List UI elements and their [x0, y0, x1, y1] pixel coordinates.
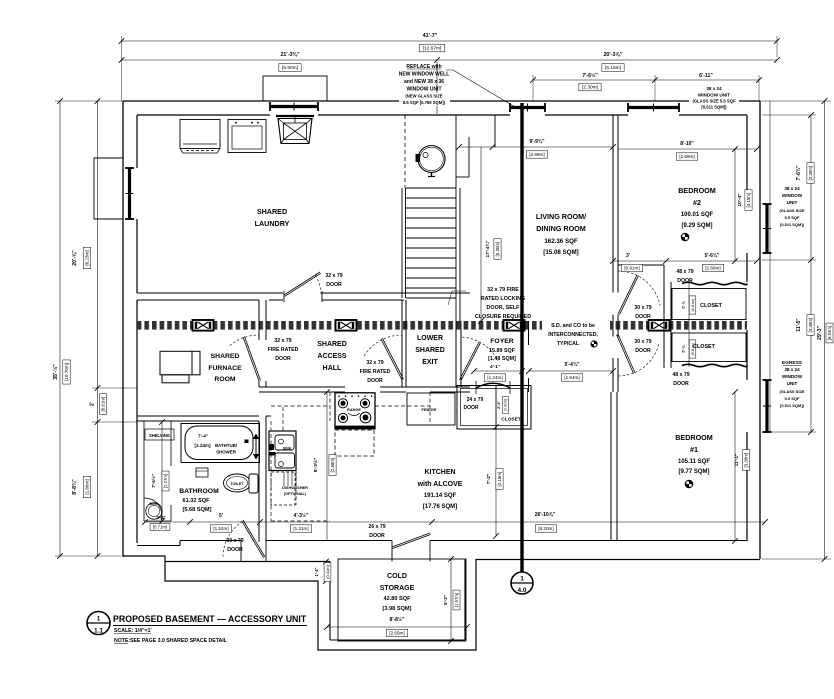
svg-text:1: 1: [97, 616, 101, 623]
svg-text:29'-3": 29'-3": [817, 325, 823, 340]
svg-text:8.5 SQF [0.789 SQM]): 8.5 SQF [0.789 SQM]): [403, 100, 446, 105]
svg-text:[5.30m]: [5.30m]: [495, 242, 500, 257]
svg-text:4.0: 4.0: [517, 587, 526, 594]
fire rated door FD4 in band: [649, 320, 670, 331]
furnace room east wall / hall west wall: [258, 300, 260, 340]
svg-text:[1.52m]: [1.52m]: [213, 526, 228, 531]
svg-text:5.5 SQF: 5.5 SQF: [785, 396, 800, 401]
lower shared exit / foyer west wall: [455, 330, 457, 387]
door D7 bathroom 30x79: [242, 520, 265, 558]
foyer east wall stubs: [528, 330, 530, 345]
svg-text:1.1: 1.1: [94, 628, 103, 635]
smoke detector symbol near note: [590, 340, 597, 347]
svg-text:[1.31m]: [1.31m]: [293, 526, 308, 531]
door D2 hall west 32x79 fire rated: [243, 336, 261, 381]
dim 41'-7" overall top: [122, 40, 778, 42]
water heater: [418, 146, 445, 173]
door D5 foyer to bedroom1 30x79: [617, 334, 635, 374]
tub drain arrows: [255, 436, 257, 457]
svg-text:UNIT: UNIT: [787, 200, 798, 205]
svg-text:[2.18m]: [2.18m]: [497, 472, 502, 487]
laundry dashed partition: [404, 115, 406, 188]
laundry south wall: [137, 292, 283, 294]
kitchen east / bedroom1 west wall: [610, 392, 612, 541]
svg-text:DOOR: DOOR: [677, 278, 693, 284]
svg-text:30 x 79: 30 x 79: [634, 305, 651, 311]
svg-text:[0.71m]: [0.71m]: [153, 525, 167, 530]
toilet paper holder: [196, 468, 208, 477]
svg-text:7'-2": 7'-2": [486, 474, 492, 484]
svg-text:[0.81m]: [0.81m]: [691, 299, 695, 312]
svg-text:FOYER: FOYER: [490, 338, 514, 345]
svg-text:8'-8¾": 8'-8¾": [71, 479, 78, 495]
dim 2' left furnace: [97, 388, 99, 422]
svg-text:NOTE:: NOTE:: [114, 638, 130, 644]
svg-text:[1.57m]: [1.57m]: [454, 593, 459, 607]
living room west wall stub: [494, 115, 496, 147]
closet2 south wavy existing wall: [682, 364, 747, 366]
svg-text:SHOWER: SHOWER: [216, 450, 237, 455]
interior walls crossing band: [258, 321, 260, 330]
toilet: [224, 474, 251, 492]
svg-text:EXIT: EXIT: [422, 359, 438, 366]
svg-text:[2.65m]: [2.65m]: [389, 631, 404, 636]
dim 5'-4 3/4 alcove width: [529, 370, 613, 372]
dishwasher optional dashed: [271, 472, 295, 505]
dim 11'-5 right egress: [810, 260, 812, 432]
svg-text:8'-3½": 8'-3½": [312, 458, 319, 472]
svg-text:8'-8½": 8'-8½": [390, 616, 406, 623]
svg-text:21'-3⅜": 21'-3⅜": [280, 52, 300, 58]
svg-text:[9.77 SQM]: [9.77 SQM]: [678, 469, 709, 475]
dim 10'-4 bedroom2 height: [734, 149, 736, 261]
svg-text:BEDROOM: BEDROOM: [678, 186, 716, 195]
svg-text:[6.18m]: [6.18m]: [605, 65, 621, 71]
bathroom sink: [144, 498, 162, 520]
hall east wall / stair wall: [401, 300, 403, 321]
svg-text:(GLASS SIZE 5.5 SQF: (GLASS SIZE 5.5 SQF: [692, 99, 735, 104]
window W1 top 38x36 replacement: [269, 102, 271, 111]
section cut line 1/4.0: [520, 103, 523, 572]
svg-text:INTERCONNECTED,: INTERCONNECTED,: [548, 332, 598, 338]
svg-text:26 x 79: 26 x 79: [368, 524, 385, 530]
svg-text:48 x 79: 48 x 79: [672, 372, 689, 378]
svg-text:5'-4¾": 5'-4¾": [565, 361, 581, 368]
svg-text:SINK: SINK: [149, 502, 158, 506]
svg-text:32 x 79: 32 x 79: [366, 360, 383, 366]
dim 35'-1/2 overall left: [59, 101, 61, 556]
svg-text:41'-7": 41'-7": [423, 33, 438, 39]
svg-text:[0.511 SQM]): [0.511 SQM]): [701, 105, 727, 110]
svg-text:KITCHEN: KITCHEN: [424, 469, 455, 476]
svg-text:SHARED: SHARED: [317, 341, 347, 348]
section marker circle 1/4.0: [511, 572, 533, 594]
closet depth dim line: [688, 283, 690, 367]
fire rated door FD3 in band: [504, 320, 525, 331]
svg-text:7'-6¾": 7'-6¾": [795, 165, 802, 181]
dim 5'-6 3/4 bedroom2 south: [666, 260, 757, 262]
dim 8'-10 bedroom2 width: [618, 148, 757, 150]
svg-text:FIRE RATED: FIRE RATED: [360, 369, 391, 375]
svg-text:11'-1": 11'-1": [734, 454, 740, 467]
svg-text:LAUNDRY: LAUNDRY: [255, 219, 290, 228]
svg-text:DOOR: DOOR: [326, 282, 342, 288]
dim 4'-1 foyer width: [474, 370, 522, 372]
svg-text:[8.20m]: [8.20m]: [538, 526, 553, 531]
svg-text:5': 5': [219, 513, 223, 519]
svg-text:7'-4": 7'-4": [198, 434, 208, 440]
svg-text:162.36 SQF: 162.36 SQF: [544, 238, 578, 245]
window well at top (laundry): [263, 76, 327, 101]
svg-text:SCALE: 1/4"=1': SCALE: 1/4"=1': [114, 628, 152, 634]
svg-text:DOOR: DOOR: [673, 381, 689, 387]
door D8 kitchen/cold storage 26x79: [392, 533, 431, 549]
svg-text:2'-4": 2'-4": [497, 401, 501, 409]
svg-text:38 x 24: 38 x 24: [784, 186, 800, 191]
svg-text:CLOSURE REQUIRED: CLOSURE REQUIRED: [475, 314, 531, 320]
dryer: [228, 120, 266, 153]
dim 3' bedroom2 south: [613, 260, 666, 262]
svg-text:9'-9¾": 9'-9¾": [530, 138, 546, 145]
svg-text:[3.38m]: [3.38m]: [744, 453, 749, 468]
svg-text:FURNACE: FURNACE: [208, 365, 242, 372]
exterior wall outline: [123, 100, 760, 102]
svg-text:[2.88m]: [2.88m]: [330, 458, 335, 473]
svg-text:(NEW GLASS SIZE: (NEW GLASS SIZE: [405, 94, 442, 99]
svg-text:38 x 24: 38 x 24: [706, 86, 722, 91]
svg-text:42.80 SQF: 42.80 SQF: [383, 596, 411, 602]
svg-text:48 x 79: 48 x 79: [676, 269, 693, 275]
svg-text:[3.48m]: [3.48m]: [808, 318, 813, 333]
svg-text:2': 2': [90, 402, 96, 406]
svg-text:30 x 79: 30 x 79: [634, 339, 651, 345]
dim 9'-9 3/4 living width: [459, 146, 613, 148]
window W4 left laundry: [125, 167, 134, 169]
svg-text:20'-⅝": 20'-⅝": [72, 250, 78, 266]
svg-text:8'-10": 8'-10": [680, 141, 694, 147]
svg-text:[3.15m]: [3.15m]: [746, 193, 751, 208]
dim 20'-3 5/8 top right: [437, 59, 777, 61]
svg-text:[1.24m]: [1.24m]: [487, 375, 502, 380]
right side window well extension line: [769, 101, 771, 432]
closet1 north wavy existing wall: [682, 282, 747, 284]
svg-text:11'-5": 11'-5": [796, 318, 802, 332]
svg-text:3': 3': [626, 253, 630, 259]
svg-text:CLOSET: CLOSET: [501, 417, 521, 423]
svg-text:2'-4": 2'-4": [156, 515, 165, 520]
svg-text:LIVING ROOM/: LIVING ROOM/: [536, 212, 586, 221]
window W5 right bedroom2 38x24: [763, 203, 772, 205]
laundry door jambs: [283, 291, 285, 302]
svg-text:7'-6½": 7'-6½": [582, 72, 598, 79]
laundry tub: [276, 115, 314, 117]
door D6 bedroom2 30x79: [618, 275, 638, 315]
svg-text:5'-2": 5'-2": [443, 595, 448, 605]
svg-text:[1.68m]: [1.68m]: [705, 266, 720, 271]
hall/kitchen north wall: [259, 386, 345, 388]
svg-text:30 x 79: 30 x 79: [226, 538, 243, 544]
svg-text:1'-4": 1'-4": [314, 567, 319, 576]
svg-text:TYPICAL: TYPICAL: [557, 341, 580, 347]
dim 26'-10 7/8 bottom interior: [432, 521, 765, 523]
dim 7'-2 kitchen height: [495, 427, 497, 536]
svg-text:RANGE: RANGE: [347, 408, 361, 412]
dim 29'-3 overall right: [824, 101, 826, 559]
svg-text:#1: #1: [690, 445, 698, 454]
svg-text:[5.68 SQM]: [5.68 SQM]: [183, 507, 212, 513]
svg-text:DINING ROOM: DINING ROOM: [536, 224, 586, 233]
svg-text:and NEW 38 x 36: and NEW 38 x 36: [404, 79, 444, 85]
svg-text:CLOSET: CLOSET: [700, 303, 723, 309]
dim 1'-4 step: [325, 562, 327, 582]
window W2 top living room: [509, 103, 511, 112]
svg-text:WINDOW: WINDOW: [782, 193, 803, 198]
svg-text:PROPOSED BASEMENT — ACCESSO: PROPOSED BASEMENT — ACCESSORY UNIT: [113, 614, 307, 624]
svg-text:20'-3⅝": 20'-3⅝": [603, 52, 623, 58]
fridge: [407, 393, 455, 425]
dim 8'-3 kitchen west height: [326, 392, 328, 541]
svg-text:[0.511 SQM]): [0.511 SQM]): [780, 403, 805, 408]
svg-text:[9.29 SQM]: [9.29 SQM]: [681, 223, 712, 229]
dim 5' bathroom width: [145, 521, 432, 523]
svg-text:COLD: COLD: [387, 573, 407, 580]
svg-text:FIRE RATED: FIRE RATED: [268, 347, 299, 353]
svg-text:[0.91m]: [0.91m]: [624, 266, 639, 271]
svg-text:STORAGE: STORAGE: [380, 585, 415, 592]
svg-text:[6.50m]: [6.50m]: [282, 65, 298, 71]
bathroom north wall: [137, 415, 259, 417]
svg-text:(OPTIONAL): (OPTIONAL): [284, 492, 307, 496]
svg-text:DOOR: DOOR: [369, 533, 385, 539]
svg-text:[2.30m]: [2.30m]: [582, 85, 598, 91]
fire rated door FD2 in band: [336, 320, 357, 331]
bathroom east wall: [258, 421, 260, 542]
dim 7'-6 3/4 right window b2: [810, 115, 812, 260]
dim 5'-2 cold storage height: [450, 559, 452, 641]
window W6 right egress bedroom1: [763, 379, 772, 381]
leader replace window: [446, 69, 453, 71]
door D4 exit/foyer 32x79 fire rated locking: [460, 342, 481, 381]
svg-text:[2.24m]: [2.24m]: [194, 443, 211, 448]
kitchen counter dashed outline: [270, 421, 272, 521]
svg-text:DOOR: DOOR: [227, 547, 243, 553]
dim 20'-5/8 left laundry: [97, 101, 99, 388]
svg-text:TOILET: TOILET: [230, 482, 244, 486]
cold storage room inner face: [338, 559, 466, 641]
svg-text:DOOR: DOOR: [367, 378, 383, 384]
svg-text:DOOR: DOOR: [635, 348, 651, 354]
svg-text:NEW WINDOW WELL: NEW WINDOW WELL: [399, 72, 450, 78]
svg-text:EGRESS: EGRESS: [782, 360, 803, 366]
svg-text:HALL: HALL: [323, 365, 342, 372]
title drawing number circle: [87, 612, 110, 635]
closet1 inner box: [672, 289, 746, 320]
svg-text:[3.98 SQM]: [3.98 SQM]: [383, 606, 412, 612]
svg-text:[6.23m]: [6.23m]: [85, 250, 90, 265]
svg-text:4'-1": 4'-1": [490, 364, 500, 369]
svg-text:32 x 79: 32 x 79: [325, 273, 342, 279]
dim 7'-6 1/2 window living: [533, 79, 655, 81]
svg-text:CLOSET: CLOSET: [693, 344, 716, 350]
svg-text:61.32 SQF: 61.32 SQF: [182, 498, 210, 504]
svg-text:[2.30m]: [2.30m]: [808, 166, 813, 181]
svg-text:BATHROOM: BATHROOM: [179, 488, 219, 495]
svg-text:ACCESS: ACCESS: [317, 353, 347, 360]
bedroom2 south wall / closet north: [618, 264, 664, 266]
svg-text:[10.70m]: [10.70m]: [64, 363, 69, 381]
svg-text:1: 1: [520, 576, 524, 583]
range: [335, 393, 375, 429]
note replace window text block: [399, 93, 450, 106]
smoke detector bedroom1: [685, 480, 694, 489]
window well left side: [94, 158, 123, 219]
dim 21'-3 3/8 top left: [122, 59, 438, 61]
svg-text:2'-⅛: 2'-⅛: [682, 344, 686, 352]
svg-text:ROOM: ROOM: [214, 376, 235, 383]
svg-text:15.89 SQF: 15.89 SQF: [489, 348, 516, 354]
svg-text:#2: #2: [693, 198, 701, 207]
svg-text:6'-11": 6'-11": [699, 73, 713, 79]
foyer closet accordion door: [476, 383, 510, 388]
svg-text:32 x 79: 32 x 79: [274, 338, 291, 344]
svg-text:[1.64m]: [1.64m]: [564, 375, 579, 380]
svg-text:[17.76 SQM]: [17.76 SQM]: [423, 504, 457, 510]
svg-text:105.11 SQF: 105.11 SQF: [678, 459, 710, 465]
smoke detector bedroom2: [681, 233, 690, 242]
svg-text:WINDOW: WINDOW: [782, 374, 803, 379]
svg-text:[15.08 SQM]: [15.08 SQM]: [543, 249, 578, 256]
svg-text:LOWER: LOWER: [417, 335, 443, 342]
door D9 closet1 48x79 bifold: [599, 436, 601, 438]
dim 6'-11 window bedroom2: [655, 79, 759, 81]
svg-text:35'-½": 35'-½": [52, 364, 59, 380]
dim 11'-1 bedroom1 height: [734, 392, 736, 541]
svg-text:100.01 SQF: 100.01 SQF: [681, 212, 714, 218]
svg-text:SHARED: SHARED: [211, 353, 240, 360]
svg-text:SINK: SINK: [283, 447, 292, 451]
svg-text:SEE PAGE 3.0 SHARED SPACE: SEE PAGE 3.0 SHARED SPACE DETAIL: [130, 638, 228, 644]
svg-text:24 x 79: 24 x 79: [467, 397, 484, 403]
svg-text:[2.68m]: [2.68m]: [85, 479, 90, 494]
svg-text:SHELVING: SHELVING: [149, 433, 170, 438]
svg-text:2'-⅛: 2'-⅛: [682, 300, 686, 308]
svg-text:26'-10⅞": 26'-10⅞": [535, 512, 556, 518]
svg-text:[0.41m]: [0.41m]: [504, 399, 508, 410]
stair flight: [401, 188, 403, 298]
dim 17'-4 3/4 living height: [480, 147, 482, 321]
svg-text:DOOR: DOOR: [275, 356, 291, 362]
svg-text:DOOR, SELF: DOOR, SELF: [487, 305, 521, 311]
svg-text:[0.511 SQM]): [0.511 SQM]): [780, 222, 805, 227]
svg-text:with ALCOVE: with ALCOVE: [417, 481, 463, 488]
door D3 hall east 32x79 fire rated: [381, 338, 403, 380]
svg-text:10'-4": 10'-4": [737, 193, 743, 206]
kitchen sink double: [269, 431, 296, 471]
svg-text:WINDOW UNIT: WINDOW UNIT: [698, 93, 730, 98]
bottom exterior wall and cold storage step outline: [123, 556, 330, 562]
svg-text:191.14 SQF: 191.14 SQF: [424, 493, 457, 499]
svg-text:S.D. and CO to be: S.D. and CO to be: [551, 323, 595, 329]
closet2 inner box: [672, 333, 746, 362]
svg-text:[0.61m]: [0.61m]: [101, 397, 106, 412]
note 38x24 window unit top right: [689, 97, 739, 111]
stair enclosure walls: [455, 115, 457, 321]
furnace unit: [160, 351, 192, 375]
foyer closet: [457, 386, 531, 430]
svg-text:UNIT: UNIT: [787, 381, 798, 386]
dim 7'-5 1/2 bathroom height: [161, 422, 163, 521]
svg-text:(GLASS SIZE: (GLASS SIZE: [779, 208, 804, 213]
svg-text:FRIDGE: FRIDGE: [421, 407, 436, 412]
door D1 laundry 32x79: [284, 272, 321, 296]
svg-text:RATED LOCKING: RATED LOCKING: [481, 296, 526, 302]
svg-text:5'-6¾": 5'-6¾": [705, 252, 721, 259]
bathtub / shower: [185, 426, 253, 460]
dim 8'-8 1/2 cold storage width: [327, 626, 467, 628]
window W3 top bedroom2 38x24: [627, 103, 629, 112]
svg-text:[12.67m]: [12.67m]: [423, 46, 442, 52]
svg-text:WINDOW UNIT: WINDOW UNIT: [407, 87, 442, 93]
svg-text:[2.27m]: [2.27m]: [163, 474, 168, 488]
foyer east boundary / alcove wall: [612, 330, 614, 337]
svg-text:32 x 79 FIRE: 32 x 79 FIRE: [487, 287, 519, 293]
dim 8'-8 3/4 left bathroom: [97, 422, 99, 556]
svg-text:BATHTUB/: BATHTUB/: [215, 443, 238, 448]
svg-text:17'-4¾": 17'-4¾": [484, 240, 491, 257]
svg-text:38 x 24: 38 x 24: [784, 367, 800, 372]
bathroom south dim wall line: [144, 520, 171, 522]
svg-text:DOOR: DOOR: [635, 314, 651, 320]
svg-text:[0.41m]: [0.41m]: [325, 565, 330, 578]
living room / bedroom2 west wall: [612, 115, 614, 293]
svg-text:5.5 SQF: 5.5 SQF: [785, 215, 800, 220]
svg-text:7'-5½": 7'-5½": [150, 474, 156, 488]
svg-text:BEDROOM: BEDROOM: [675, 433, 713, 442]
svg-text:[1.48 SQM]: [1.48 SQM]: [488, 356, 516, 362]
fire rated door FD1 in band: [193, 320, 214, 331]
svg-text:SHARED: SHARED: [415, 347, 445, 354]
svg-text:(GLASS SIZE: (GLASS SIZE: [779, 389, 804, 394]
counter dashed below range: [335, 430, 374, 456]
svg-text:[8.93m]: [8.93m]: [827, 326, 832, 340]
svg-text:DISHWASHER: DISHWASHER: [282, 486, 308, 490]
bathroom shelving strip: [143, 421, 145, 521]
closet west wall: [663, 265, 665, 321]
svg-text:4'-3½": 4'-3½": [294, 512, 310, 519]
svg-text:[2.99m]: [2.99m]: [529, 152, 544, 157]
washer: [180, 120, 220, 149]
svg-text:[2.69m]: [2.69m]: [679, 154, 694, 159]
svg-text:SHARED: SHARED: [257, 207, 287, 216]
svg-text:DOOR: DOOR: [464, 405, 479, 411]
